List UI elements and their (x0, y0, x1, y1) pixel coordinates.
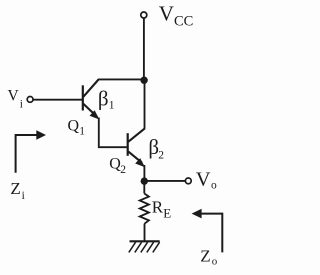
svg-text:Z: Z (200, 247, 210, 266)
svg-text:CC: CC (174, 14, 193, 30)
transistor Q1 (83, 80, 100, 120)
wire node A down to Q2 collector (144, 80, 146, 129)
input terminal circle Vi (27, 97, 33, 103)
svg-text:β: β (98, 87, 109, 111)
svg-text:V: V (196, 168, 211, 190)
transistor Q2 (128, 128, 145, 167)
wire Q1 emitter to Q2 base (99, 118, 127, 148)
wire VCC vertical to node A (143, 18, 145, 80)
svg-text:V: V (159, 2, 174, 26)
Zi arrow (16, 130, 46, 173)
node A junction dot (140, 77, 147, 84)
svg-text:o: o (212, 255, 218, 267)
svg-text:i: i (20, 99, 23, 111)
node B junction dot (141, 177, 148, 184)
resistor RE (140, 194, 149, 224)
ground (129, 241, 160, 252)
output terminal circle Vo (185, 178, 191, 184)
svg-text:Q: Q (68, 118, 80, 135)
svg-text:2: 2 (158, 150, 164, 162)
wire resistor to ground (144, 224, 146, 242)
wire Vi to Q1 base (33, 99, 82, 101)
svg-text:2: 2 (120, 164, 126, 176)
wire node B to Vo terminal (144, 180, 185, 182)
wire Q2 emitter down to node B (143, 165, 145, 181)
wire Q1 collector to node A (98, 78, 145, 80)
svg-text:o: o (211, 180, 217, 192)
svg-text:R: R (152, 198, 164, 217)
svg-text:1: 1 (109, 100, 115, 112)
svg-text:E: E (163, 206, 171, 221)
Zo arrow (192, 209, 223, 253)
svg-text:i: i (22, 190, 25, 202)
svg-text:1: 1 (79, 126, 85, 138)
svg-text:Z: Z (10, 179, 20, 198)
wire node B down to resistor (143, 181, 145, 194)
VCC terminal circle (141, 12, 147, 18)
svg-text:V: V (8, 88, 20, 105)
